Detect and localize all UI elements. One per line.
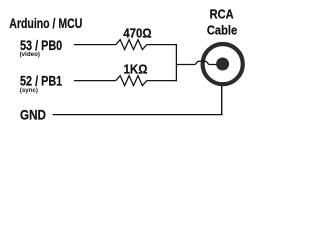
wire: pin 52/PB1 to resistor R2 bbox=[74, 80, 116, 82]
resistor R2 1KΩ zigzag bbox=[116, 76, 147, 86]
svg-text:GND: GND bbox=[20, 106, 46, 122]
wire: RCA shield down bbox=[221, 86, 223, 115]
resistor R1 470Ω zigzag bbox=[116, 40, 147, 50]
wire: vertical junction bus joining R1 and R2 outputs bbox=[175, 44, 177, 81]
wire: resistor R2 to junction bus bbox=[147, 80, 177, 82]
svg-text:470Ω: 470Ω bbox=[123, 25, 151, 40]
wire: resistor R1 to junction bus bbox=[147, 44, 177, 46]
wire: junction bus to RCA center pin, hop over shield ring bbox=[176, 61, 217, 64]
svg-text:1KΩ: 1KΩ bbox=[124, 61, 148, 76]
svg-text:Cable: Cable bbox=[207, 23, 237, 38]
RCA connector outer ring (shield) bbox=[203, 44, 243, 84]
wire: ground return to GND label bbox=[53, 114, 223, 116]
wire: pin 53/PB0 to resistor R1 bbox=[74, 44, 116, 46]
svg-text:Arduino / MCU: Arduino / MCU bbox=[9, 15, 82, 31]
RCA connector center pin (signal) bbox=[216, 58, 229, 71]
svg-text:(video): (video) bbox=[20, 51, 40, 58]
svg-text:(sync): (sync) bbox=[20, 87, 38, 94]
svg-text:RCA: RCA bbox=[210, 7, 235, 22]
